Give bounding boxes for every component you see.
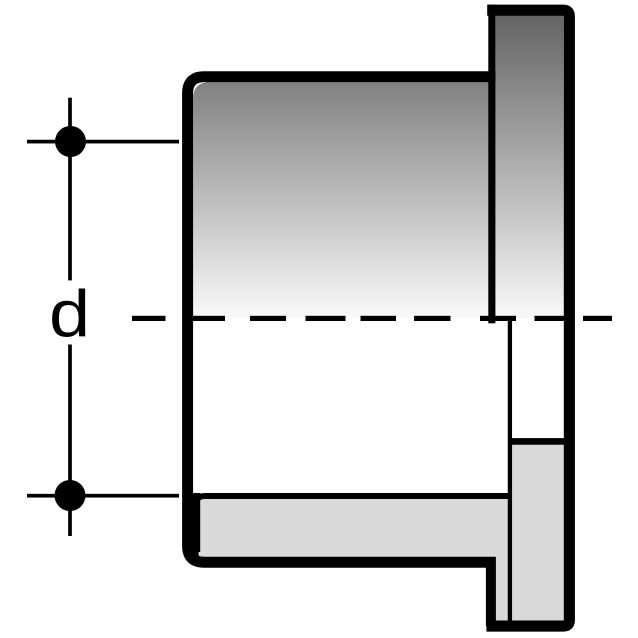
- svg-text:d: d: [49, 277, 90, 350]
